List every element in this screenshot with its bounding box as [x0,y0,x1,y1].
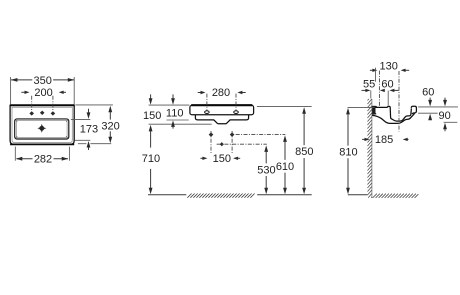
svg-text:710: 710 [142,153,160,165]
wall face extension (for 55) [370,90,372,98]
basin rim inner offset line [12,107,72,142]
dim 60 top [381,79,398,93]
tap hole centre (plan) [40,111,45,115]
dim 200 [21,87,66,99]
dim 320 [101,106,119,144]
dim 130 [370,61,409,73]
svg-text:350: 350 [34,75,52,87]
svg-text:150: 150 [143,110,161,122]
dim 90 [438,98,450,132]
dim 185 [362,134,408,146]
wall hatch [368,99,373,198]
svg-text:60: 60 [381,79,393,91]
basin skirt and drain tab outline (front) [195,115,248,124]
dim 173 bottom bound line [75,139,90,141]
tap hole left (plan) [29,111,34,115]
basin section: front rim [411,106,416,114]
svg-text:320: 320 [101,120,119,132]
floor line middle view [148,194,186,196]
centreline fixing axis (side) [378,71,380,107]
svg-text:130: 130 [380,61,398,73]
dim 150 left top arrow [143,94,161,122]
dim 320 bottom bound line [78,143,111,145]
dim 282 extension lines [14,147,16,161]
svg-text:185: 185 [375,134,393,146]
svg-text:173: 173 [80,124,98,136]
dim 110 arrows [166,94,184,128]
rim top extension line (left) [149,104,190,106]
extension line rim top right (for 60/90) [418,106,458,108]
fixing hole left (front) [209,132,214,137]
floor hatch right view [373,194,419,198]
svg-text:280: 280 [212,87,230,99]
dim 55/60 middle arrow [380,89,385,92]
svg-text:810: 810 [339,147,357,159]
dim 610 [276,135,294,194]
extension line basin bottom (for 90) [444,121,458,123]
basin outer rim (plan) [10,105,74,144]
svg-text:282: 282 [34,154,52,166]
bowl outer outline [15,119,69,139]
dim 173 arrows [80,109,98,150]
fixing hole right (front) [230,132,235,137]
floor hatch middle view [187,194,254,198]
tap hole right (front oval) [234,111,239,114]
tap extension line (side) [387,91,389,106]
dim 810 [339,108,357,194]
dim 710 with shared 150 bottom arrow [142,125,160,194]
dim 850 [295,107,313,194]
floor line middle view right [257,194,312,196]
tap hole centrelines (front) [206,94,208,111]
centreline drain axis (side) [398,71,400,132]
svg-text:200: 200 [34,87,52,99]
skirt bottom extension line (left) [167,119,189,121]
tap hole centrelines (plan) [31,96,33,111]
basin section: underside with drain boss [372,113,415,123]
wall face line [371,99,373,198]
dim 350 [11,75,74,87]
tap hole left (front oval) [205,111,210,114]
svg-text:55: 55 [363,79,375,91]
extension line rim top (for 810) [348,106,375,108]
dim 60 right [422,87,434,121]
extension line basin back (for 130) [375,68,377,82]
dim 282 [16,153,68,165]
svg-text:90: 90 [438,110,450,122]
fixing hole centrelines vertical [210,131,212,154]
svg-text:60: 60 [422,87,434,99]
basin section: fixing bracket [372,106,377,115]
floor line right view [348,194,368,196]
svg-text:610: 610 [276,161,294,173]
rect top extension line (right) [75,104,113,106]
bowl corner ticks [16,120,68,139]
svg-text:150: 150 [213,153,231,165]
svg-text:850: 850 [295,146,313,158]
basin section: deck and bowl interior [376,106,412,121]
svg-text:110: 110 [166,108,184,120]
basin rim band (front) [190,105,254,115]
dim 280 [198,87,246,99]
tap hole right (plan) [51,111,56,115]
bowl top extension line (right) [71,118,90,120]
dim 530 [257,145,275,194]
drain symbol (plan) [37,124,46,133]
drain hole centreline horizontal (to 530) [217,143,267,145]
fixing holes centreline horizontal (to 610) [236,134,286,136]
dim 55 [362,79,376,93]
svg-text:530: 530 [257,164,275,176]
bowl inner offset line [16,121,67,138]
drain hole (front) [220,142,224,146]
dim 350 extension lines [10,77,12,105]
rim top extension line (right, for 850) [257,106,312,108]
extension line rim underside (for 60) [418,112,438,114]
dim 150 middle [200,153,240,165]
tab bottom extension line (left) [149,123,212,125]
